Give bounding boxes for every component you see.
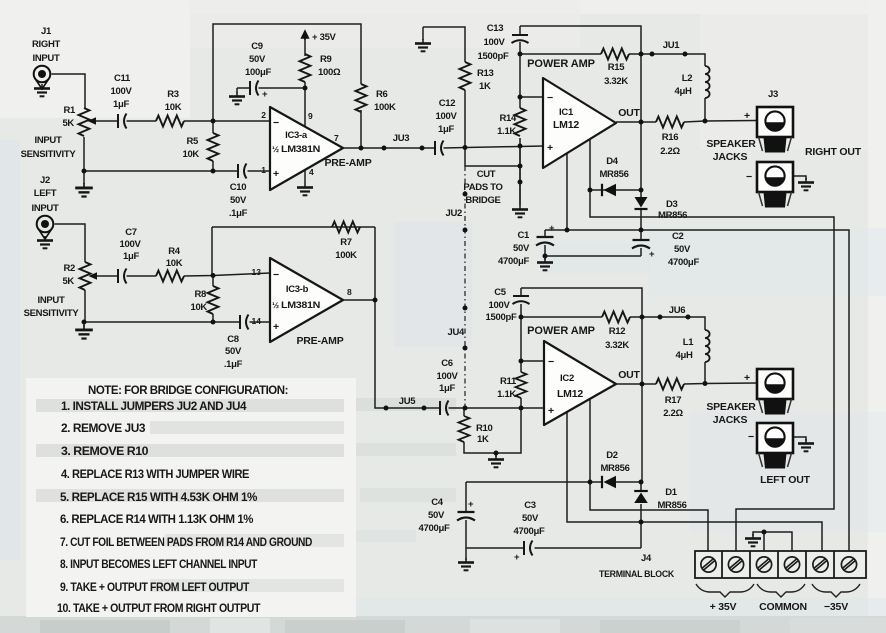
svg-text:MR856: MR856 <box>658 210 687 221</box>
svg-text:R6: R6 <box>376 89 388 100</box>
svg-text:1K: 1K <box>479 81 491 92</box>
svg-text:+: + <box>468 499 474 510</box>
svg-text:POWER AMP: POWER AMP <box>527 58 595 70</box>
svg-text:.1μF: .1μF <box>224 359 243 370</box>
svg-text:50V: 50V <box>513 243 530 254</box>
svg-text:100μF: 100μF <box>245 67 271 78</box>
svg-text:+ 35V: + 35V <box>710 601 737 613</box>
svg-text:JU3: JU3 <box>393 133 410 144</box>
svg-text:CUT: CUT <box>477 169 496 180</box>
svg-text:IC3-b: IC3-b <box>286 284 309 295</box>
svg-text:JU2: JU2 <box>445 208 462 219</box>
svg-text:5K: 5K <box>62 118 74 129</box>
svg-text:JACKS: JACKS <box>713 151 748 163</box>
svg-text:50V: 50V <box>230 195 247 206</box>
svg-text:−: − <box>273 269 279 281</box>
svg-text:R13: R13 <box>477 68 494 79</box>
svg-text:JU1: JU1 <box>663 40 681 51</box>
svg-text:1: 1 <box>261 165 266 175</box>
svg-text:100V: 100V <box>436 111 458 122</box>
svg-text:J4: J4 <box>641 553 652 564</box>
svg-text:−: − <box>273 117 279 129</box>
svg-text:PADS TO: PADS TO <box>463 182 502 193</box>
svg-text:INPUT: INPUT <box>31 203 58 214</box>
svg-text:50V: 50V <box>249 54 266 65</box>
svg-text:R9: R9 <box>320 54 332 65</box>
svg-text:PRE-AMP: PRE-AMP <box>296 335 343 347</box>
svg-text:1. INSTALL JUMPERS JU2 AND JU4: 1. INSTALL JUMPERS JU2 AND JU4 <box>61 401 247 413</box>
svg-text:14: 14 <box>252 316 262 326</box>
svg-text:7. CUT FOIL BETWEEN PADS FROM: 7. CUT FOIL BETWEEN PADS FROM R14 AND GR… <box>60 537 312 549</box>
svg-text:PRE-AMP: PRE-AMP <box>324 157 371 169</box>
svg-text:TERMINAL BLOCK: TERMINAL BLOCK <box>599 569 674 580</box>
svg-text:1.1K: 1.1K <box>497 126 516 137</box>
svg-text:4700μF: 4700μF <box>419 523 450 534</box>
svg-text:3. REMOVE R10: 3. REMOVE R10 <box>61 446 148 458</box>
svg-text:IC3-a: IC3-a <box>285 130 308 141</box>
svg-text:.1μF: .1μF <box>229 208 248 219</box>
svg-text:C13: C13 <box>487 23 504 34</box>
svg-text:SENSITIVITY: SENSITIVITY <box>21 149 77 160</box>
svg-text:1500pF: 1500pF <box>478 51 509 62</box>
svg-text:4μH: 4μH <box>675 350 692 361</box>
svg-text:−: − <box>547 92 553 104</box>
svg-text:NOTE: FOR BRIDGE CONFIGURATION: NOTE: FOR BRIDGE CONFIGURATION: <box>88 385 288 397</box>
svg-text:+: + <box>744 372 750 384</box>
svg-text:−: − <box>746 171 752 183</box>
svg-text:R11: R11 <box>500 376 517 387</box>
svg-text:100K: 100K <box>335 250 357 261</box>
svg-text:4700μF: 4700μF <box>668 257 699 268</box>
svg-text:J2: J2 <box>40 175 50 186</box>
svg-text:MR856: MR856 <box>657 500 686 511</box>
svg-text:LM12: LM12 <box>557 388 583 400</box>
svg-text:INPUT: INPUT <box>32 53 59 64</box>
svg-text:3.32K: 3.32K <box>604 76 628 87</box>
svg-text:LEFT: LEFT <box>34 188 57 199</box>
svg-text:SPEAKER: SPEAKER <box>706 401 756 413</box>
svg-text:+: + <box>547 142 553 154</box>
svg-text:10K: 10K <box>182 149 199 160</box>
svg-text:JU4: JU4 <box>447 327 465 338</box>
svg-text:OUT: OUT <box>618 107 640 119</box>
svg-text:D1: D1 <box>665 487 678 498</box>
svg-text:C8: C8 <box>227 334 239 345</box>
svg-text:RIGHT OUT: RIGHT OUT <box>805 146 862 158</box>
svg-text:50V: 50V <box>225 346 242 357</box>
svg-text:+: + <box>744 110 750 122</box>
svg-text:5. REPLACE R15 WITH 4.53K OHM: 5. REPLACE R15 WITH 4.53K OHM 1% <box>60 492 257 504</box>
svg-text:10. TAKE + OUTPUT FROM RIGHT: 10. TAKE + OUTPUT FROM RIGHT OUTPUT <box>57 603 260 615</box>
svg-text:LM381N: LM381N <box>281 300 320 311</box>
svg-text:1μF: 1μF <box>438 124 454 135</box>
svg-text:+: + <box>649 249 655 260</box>
svg-text:2. REMOVE JU3: 2. REMOVE JU3 <box>61 423 145 435</box>
svg-text:7: 7 <box>334 133 339 143</box>
svg-text:−35V: −35V <box>824 601 848 613</box>
svg-text:C9: C9 <box>251 41 263 52</box>
svg-text:R17: R17 <box>665 395 682 406</box>
svg-text:+: + <box>548 405 554 417</box>
svg-text:L2: L2 <box>682 73 693 84</box>
svg-text:2.2Ω: 2.2Ω <box>660 146 680 157</box>
svg-text:JU5: JU5 <box>399 396 417 407</box>
svg-text:R16: R16 <box>662 132 679 143</box>
svg-text:L1: L1 <box>683 337 695 348</box>
svg-text:1.1K: 1.1K <box>497 389 516 400</box>
svg-text:C2: C2 <box>672 231 684 242</box>
svg-text:R1: R1 <box>63 105 76 116</box>
svg-text:BRIDGE: BRIDGE <box>465 195 500 206</box>
svg-text:IC2: IC2 <box>560 373 574 384</box>
svg-text:R15: R15 <box>608 62 626 73</box>
svg-text:4700μF: 4700μF <box>514 526 545 537</box>
svg-text:100V: 100V <box>120 239 142 250</box>
svg-text:R12: R12 <box>609 326 626 337</box>
svg-text:RIGHT: RIGHT <box>32 39 61 50</box>
svg-text:LM12: LM12 <box>553 119 579 131</box>
svg-text:+: + <box>273 168 279 180</box>
svg-text:R4: R4 <box>168 246 181 257</box>
svg-text:INPUT: INPUT <box>37 295 64 306</box>
svg-text:J1: J1 <box>41 26 52 37</box>
svg-text:R7: R7 <box>340 237 352 248</box>
svg-text:C7: C7 <box>125 227 137 238</box>
svg-text:5K: 5K <box>62 276 74 287</box>
svg-text:MR856: MR856 <box>599 169 628 180</box>
svg-text:R5: R5 <box>186 136 199 147</box>
svg-text:+: + <box>514 552 520 563</box>
svg-text:C4: C4 <box>431 497 444 508</box>
svg-text:IC1: IC1 <box>559 107 574 118</box>
svg-text:COMMON: COMMON <box>759 601 807 613</box>
svg-text:6. REPLACE R14 WITH 1.13K OHM: 6. REPLACE R14 WITH 1.13K OHM 1% <box>60 514 253 526</box>
svg-text:13: 13 <box>252 267 262 277</box>
svg-text:4700μF: 4700μF <box>498 256 529 267</box>
svg-text:D3: D3 <box>666 199 678 210</box>
svg-text:1K: 1K <box>477 434 489 445</box>
svg-text:10K: 10K <box>165 102 182 113</box>
svg-text:½: ½ <box>272 300 279 310</box>
svg-text:4: 4 <box>309 167 314 177</box>
svg-text:2.2Ω: 2.2Ω <box>663 408 683 419</box>
svg-text:D2: D2 <box>606 450 618 461</box>
svg-text:−: − <box>548 356 554 368</box>
svg-text:POWER AMP: POWER AMP <box>527 325 595 337</box>
svg-text:LEFT OUT: LEFT OUT <box>760 474 811 486</box>
svg-text:100K: 100K <box>374 102 396 113</box>
svg-text:4. REPLACE R13 WITH JUMPER WIR: 4. REPLACE R13 WITH JUMPER WIRE <box>61 469 250 481</box>
svg-text:INPUT: INPUT <box>34 135 61 146</box>
svg-text:100Ω: 100Ω <box>318 67 341 78</box>
svg-text:50V: 50V <box>428 510 445 521</box>
svg-text:8: 8 <box>347 287 352 297</box>
svg-text:50V: 50V <box>522 513 539 524</box>
svg-text:3.32K: 3.32K <box>605 340 629 351</box>
svg-text:R3: R3 <box>167 89 179 100</box>
svg-text:C6: C6 <box>441 358 453 369</box>
svg-text:4μH: 4μH <box>674 86 691 97</box>
svg-text:10K: 10K <box>166 258 183 269</box>
svg-text:100V: 100V <box>484 37 506 48</box>
svg-text:R2: R2 <box>63 263 75 274</box>
svg-text:9. TAKE + OUTPUT FROM LEFT OUT: 9. TAKE + OUTPUT FROM LEFT OUTPUT <box>60 582 249 594</box>
svg-text:2: 2 <box>261 110 266 120</box>
svg-text:100V: 100V <box>437 371 459 382</box>
svg-text:1μF: 1μF <box>113 99 129 110</box>
svg-text:J3: J3 <box>768 89 778 100</box>
svg-text:LM381N: LM381N <box>281 144 320 155</box>
svg-text:C5: C5 <box>494 287 507 298</box>
svg-text:8. INPUT BECOMES LEFT CHANNEL: 8. INPUT BECOMES LEFT CHANNEL INPUT <box>60 559 257 571</box>
svg-text:½: ½ <box>272 144 279 154</box>
svg-text:MR856: MR856 <box>600 463 629 474</box>
svg-text:+ 35V: + 35V <box>312 32 337 43</box>
svg-text:100V: 100V <box>111 86 133 97</box>
svg-text:C11: C11 <box>114 73 131 84</box>
svg-text:−: − <box>748 431 754 443</box>
svg-text:SPEAKER: SPEAKER <box>706 138 756 150</box>
svg-text:1500pF: 1500pF <box>486 312 517 323</box>
svg-text:JACKS: JACKS <box>713 414 748 426</box>
svg-text:1μF: 1μF <box>439 383 455 394</box>
svg-text:OUT: OUT <box>618 369 640 381</box>
svg-text:+: + <box>549 223 555 234</box>
svg-text:R10: R10 <box>476 423 493 434</box>
svg-text:100V: 100V <box>489 300 511 311</box>
svg-text:C12: C12 <box>439 98 456 109</box>
svg-text:SENSITIVITY: SENSITIVITY <box>24 308 80 319</box>
svg-text:10K: 10K <box>190 302 207 313</box>
svg-text:C10: C10 <box>230 182 247 193</box>
svg-text:9: 9 <box>308 111 313 121</box>
svg-text:C3: C3 <box>524 500 536 511</box>
svg-text:D4: D4 <box>606 156 619 167</box>
svg-text:+: + <box>262 89 268 100</box>
svg-text:R8: R8 <box>194 289 206 300</box>
svg-text:1μF: 1μF <box>123 251 139 262</box>
svg-text:JU6: JU6 <box>669 305 686 316</box>
svg-text:R14: R14 <box>499 113 517 124</box>
svg-text:50V: 50V <box>674 244 691 255</box>
svg-text:+: + <box>273 321 279 333</box>
svg-text:C1: C1 <box>517 230 530 241</box>
